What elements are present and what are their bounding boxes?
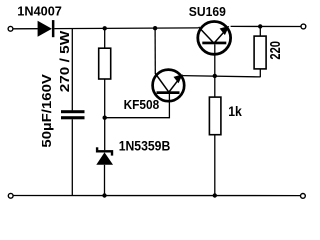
wire Q2 base down bbox=[214, 44, 216, 97]
svg-text:50µF/160V: 50µF/160V bbox=[40, 73, 54, 147]
wire R2 bottom to emitter wire bbox=[259, 69, 261, 77]
label 1k bbox=[228, 104, 242, 119]
svg-text:1N5359B: 1N5359B bbox=[119, 138, 171, 153]
terminal T2 bottom-left bbox=[8, 193, 13, 198]
node junction dot base tap bbox=[103, 116, 107, 120]
wire R3 to bottom rail bbox=[214, 135, 216, 196]
capacitor C1 plates bbox=[61, 110, 85, 119]
terminal T1 top-left bbox=[8, 26, 13, 31]
wire base tap to Q1 base bbox=[105, 94, 170, 118]
svg-text:KF508: KF508 bbox=[124, 98, 160, 112]
terminal T4 bottom-right bbox=[301, 194, 306, 199]
node junction dot zener on bottom rail bbox=[102, 193, 106, 197]
label 1N5359B bbox=[119, 138, 171, 153]
wire rail to R1 bbox=[104, 28, 106, 48]
resistor R2 220 bbox=[254, 36, 266, 69]
label KF508 bbox=[124, 98, 160, 112]
zener diode D2 1N5359B bbox=[96, 147, 113, 165]
diode D1 1N4007 bbox=[38, 20, 55, 37]
svg-text:270 / 5W: 270 / 5W bbox=[58, 31, 72, 93]
resistor R1 270/5W bbox=[99, 48, 111, 79]
svg-text:1k: 1k bbox=[228, 104, 242, 119]
label 270 / 5W bbox=[58, 31, 72, 93]
terminal T3 top-right bbox=[301, 24, 306, 29]
wire Q1 emitter to R2 bottom bbox=[183, 76, 261, 77]
wire capacitor branch from top rail bbox=[71, 29, 73, 111]
node junction dot Q1 collector on rail bbox=[153, 26, 157, 30]
label 50uF/160V bbox=[40, 73, 54, 147]
wire top rail left segment (diode to SU169) bbox=[54, 27, 198, 30]
svg-text:1N4007: 1N4007 bbox=[17, 4, 62, 19]
wire top rail right segment (SU169 to T3) bbox=[231, 25, 302, 27]
transistor Q1 KF508 bbox=[153, 70, 185, 102]
transistor Q2 SU169 bbox=[198, 22, 231, 55]
resistor R3 1k bbox=[209, 97, 221, 135]
wire rail to R2 bbox=[259, 26, 261, 36]
wire R1 bottom to zener bbox=[104, 79, 106, 150]
label 220 bbox=[268, 41, 284, 60]
wire capacitor to bottom rail bbox=[71, 119, 73, 195]
wire bottom rail bbox=[13, 195, 300, 197]
wire rail to Q1 collector bbox=[154, 28, 156, 74]
svg-text:220: 220 bbox=[268, 41, 284, 60]
wire T1 to diode anode bbox=[13, 28, 38, 30]
label 1N4007 bbox=[17, 4, 62, 19]
node junction dot Q2 base / emitter wire bbox=[213, 74, 217, 78]
node junction dot R2 top bbox=[258, 24, 262, 28]
label SU169 bbox=[189, 4, 226, 19]
wire zener to bottom rail bbox=[104, 165, 106, 196]
svg-text:SU169: SU169 bbox=[189, 4, 226, 19]
node junction dot R1 top bbox=[103, 26, 107, 30]
node junction dot R3 on bottom rail bbox=[213, 193, 217, 197]
